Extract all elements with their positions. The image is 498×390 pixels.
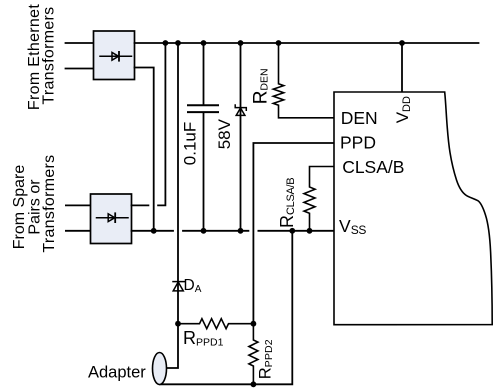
svg-text:RDEN: RDEN — [250, 68, 271, 104]
svg-text:DA: DA — [184, 277, 202, 295]
resistor RPPD2 — [249, 324, 258, 385]
junction top rail / RDEN branch — [276, 40, 282, 46]
capacitor C1 0.1uF — [188, 105, 218, 112]
svg-text:PPD: PPD — [340, 132, 376, 152]
wire zener branch — [240, 43, 242, 231]
BR1 diode symbol — [100, 52, 132, 61]
adapter connector J1 — [153, 353, 167, 385]
wire top bridge input B — [66, 68, 94, 70]
resistor RDEN — [273, 43, 334, 118]
junction lower rail / bottom return wire — [289, 228, 295, 234]
junction node RPPD1 / RPPD2 / PPD wire — [251, 321, 257, 327]
svg-text:0.1uF: 0.1uF — [180, 122, 199, 165]
wire lower rail VSS — [132, 230, 335, 232]
svg-text:RCLSA/B: RCLSA/B — [277, 178, 297, 228]
wire BR2 upper output hook to top rail — [132, 43, 166, 205]
junction lower rail / BR1 lower output — [151, 228, 157, 234]
wire BR1 lower output bend down — [135, 68, 154, 231]
wire top rail VDD — [135, 42, 479, 44]
svg-text:From Spare: From Spare — [11, 165, 28, 250]
label "From Spare Pairs or Transformers" — [11, 155, 58, 253]
IC U1 outline — [334, 92, 492, 325]
junction top rail / DA branch — [175, 40, 181, 46]
wire capacitor branch bottom — [203, 113, 205, 231]
junction top rail / capacitor branch — [201, 40, 207, 46]
bridge rectifier BR1 (top) — [94, 31, 135, 80]
diode DA — [173, 282, 184, 291]
resistor RPPD1 — [178, 319, 253, 329]
svg-text:CLSA/B: CLSA/B — [342, 157, 404, 177]
wire bottom rail from adapter — [160, 231, 292, 384]
svg-text:RPPD1: RPPD1 — [183, 328, 224, 349]
wire lower bridge input B — [66, 230, 91, 232]
junction lower rail / capacitor branch — [201, 228, 207, 234]
svg-text:Transformers: Transformers — [41, 155, 58, 253]
svg-text:58V: 58V — [215, 118, 234, 149]
junction lower rail / zener branch — [238, 228, 244, 234]
junction node DA / RPPD1 / adapter — [175, 321, 181, 327]
wire DA branch vertical — [167, 43, 179, 368]
resistor RCLSA/B — [304, 167, 334, 231]
wire PPD pin bend — [253, 143, 334, 324]
svg-text:DEN: DEN — [341, 108, 378, 128]
label "From Ethernet Transformers" — [26, 4, 58, 110]
wire top bridge input A — [66, 42, 94, 44]
junction node RPPD2 / bottom rail — [251, 381, 257, 387]
junction top rail / zener branch — [238, 40, 244, 46]
bridge rectifier BR2 (bottom) — [91, 194, 132, 244]
wire lower bridge input A — [66, 204, 91, 206]
wire VDD pin — [401, 43, 403, 92]
svg-text:RPPD2: RPPD2 — [257, 339, 275, 379]
junction lower rail / RCLSA/B branch — [307, 228, 313, 234]
BR2 diode symbol — [97, 213, 129, 222]
junction top rail / BR2 hook — [163, 40, 169, 46]
svg-text:Adapter: Adapter — [88, 364, 146, 382]
svg-text:Transformers: Transformers — [41, 7, 58, 105]
junction top rail / VDD pin wire — [399, 40, 405, 46]
zener diode 58V — [235, 105, 246, 115]
wire capacitor branch top — [203, 43, 205, 105]
